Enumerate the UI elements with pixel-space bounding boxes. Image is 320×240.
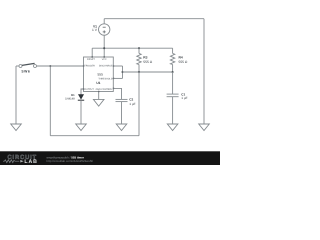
svg-text:1 µF: 1 µF (129, 102, 135, 106)
wire trigger (37, 65, 84, 67)
R4 label and value (179, 55, 188, 64)
capacitor C1 (167, 94, 179, 97)
node junction R4/C1 (172, 71, 174, 73)
ground C2 (116, 124, 127, 131)
wire right rail down (203, 19, 205, 124)
capacitor C2 (116, 99, 128, 101)
R3 label and value (143, 55, 152, 64)
svg-text:U1: U1 (96, 81, 100, 85)
svg-text:RESET: RESET (87, 58, 95, 61)
svg-text:TRIGGER: TRIGGER (84, 64, 95, 67)
svg-text:OUTPUT: OUTPUT (84, 88, 94, 91)
footer bar (0, 151, 220, 165)
voltage source V1 (99, 24, 110, 35)
svg-text:DISCHARGE: DISCHARGE (99, 64, 113, 67)
diode D1 (78, 94, 84, 100)
wire THRESHOLD stub (113, 77, 122, 79)
svg-text:1N4148: 1N4148 (65, 98, 75, 101)
svg-text:SW6: SW6 (21, 69, 30, 73)
node junction R3 bottom (138, 71, 140, 73)
ground C1 (167, 124, 178, 131)
node junction R3 top (138, 47, 140, 49)
wire CONTROL stub (113, 88, 121, 99)
D1 label and value (65, 94, 75, 101)
wire C1 to ground (172, 97, 174, 124)
svg-text:D1: D1 (71, 94, 75, 97)
wire RESET stub (91, 48, 93, 57)
svg-text:CONTROL: CONTROL (101, 88, 113, 91)
wire feedback up to trigger (49, 66, 51, 136)
pin nubs U1 (83, 56, 114, 92)
ground switch (11, 124, 22, 131)
wire feedback node down (138, 72, 140, 136)
switch SW6 (16, 63, 37, 67)
wire DISCHARGE stub (113, 65, 122, 67)
wire OUTPUT stub (81, 89, 84, 95)
ground U1 GND pin (93, 99, 104, 106)
wire VCC rail (92, 47, 172, 49)
svg-text:1 V: 1 V (92, 28, 98, 32)
svg-text:C2: C2 (129, 97, 133, 101)
wire V1 bottom to VCC node (103, 35, 105, 57)
C1 label and value (181, 92, 187, 100)
CircuitLab logo (3, 154, 38, 165)
wire switch left down (15, 66, 17, 124)
wire feedback bottom (50, 135, 139, 137)
C2 label and value (129, 97, 135, 106)
svg-text:GND: GND (96, 88, 101, 91)
wire threshold rail (123, 71, 173, 73)
wire C2 to ground (121, 102, 123, 124)
wire D1 to ground (80, 100, 82, 124)
svg-text:http://circuitlab.com/c6dxs252: http://circuitlab.com/c6dxs2522wuf9/ (47, 159, 94, 163)
svg-text:R4: R4 (179, 55, 183, 59)
wire V1 top lead (103, 19, 105, 24)
node junction trigger/feedback (49, 65, 51, 67)
wire C1 top (172, 72, 174, 94)
resistor R4 (170, 48, 174, 72)
ground right rail (199, 124, 210, 131)
op-amp U1 555 timer box (84, 57, 114, 92)
svg-text:THRESHOLD: THRESHOLD (98, 78, 113, 81)
svg-text:1 µF: 1 µF (181, 96, 187, 100)
wire top rail to right (104, 18, 204, 20)
svg-text:555 Ω: 555 Ω (143, 60, 152, 64)
node junction bracket/rail (121, 71, 123, 73)
V1 label and value (92, 24, 98, 32)
svg-text:R3: R3 (143, 55, 147, 59)
resistor R3 (137, 48, 141, 72)
wire GND pin stub (98, 92, 100, 100)
svg-text:555: 555 (98, 72, 104, 76)
svg-text:VCC: VCC (102, 58, 107, 61)
node junction V1/VCC (103, 47, 105, 49)
wire discharge-threshold bracket (122, 66, 124, 78)
ground D1 (76, 124, 87, 131)
svg-text:555 Ω: 555 Ω (179, 60, 188, 64)
svg-text:LAB: LAB (24, 159, 37, 165)
